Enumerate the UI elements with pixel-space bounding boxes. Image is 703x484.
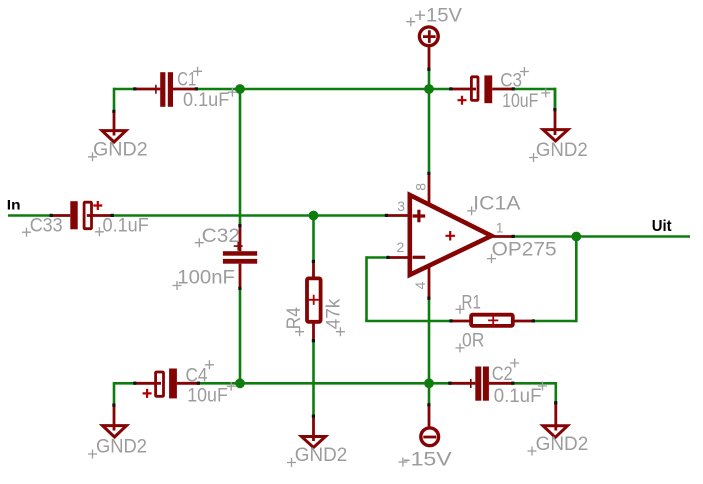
op-amp IC1A bbox=[387, 174, 514, 299]
GND2 bottom-left origin cross bbox=[88, 450, 97, 459]
svg-text:R4: R4 bbox=[284, 307, 305, 330]
svg-text:C1: C1 bbox=[177, 69, 196, 90]
wire feedback riser (output to R1) bbox=[575, 237, 578, 323]
ground GND2 top-right bbox=[543, 110, 568, 141]
junction dot input rail / R4 bbox=[309, 211, 319, 221]
svg-text:10uF: 10uF bbox=[187, 386, 228, 407]
wire op-amp pin 2 stub bbox=[367, 256, 389, 259]
svg-text:-15V: -15V bbox=[403, 450, 452, 471]
GND2 top-right origin cross bbox=[529, 153, 538, 162]
R4 text origin crosses bbox=[295, 327, 345, 336]
wire input left (In to C33) bbox=[8, 214, 51, 217]
svg-text:+15V: +15V bbox=[414, 6, 462, 27]
resistor R1 bbox=[451, 315, 534, 326]
wire +15V to top rail junction bbox=[428, 70, 431, 90]
capacitor C3 (polarized) bbox=[451, 75, 513, 104]
wire op-amp pin 8 riser bbox=[428, 89, 431, 174]
C2 text origin crosses bbox=[510, 359, 547, 391]
svg-text:Uit: Uit bbox=[652, 218, 672, 235]
svg-text:100nF: 100nF bbox=[177, 268, 235, 289]
wire op-amp pin 4 drop bbox=[428, 298, 431, 405]
svg-text:C3: C3 bbox=[500, 70, 522, 91]
ground GND2 bottom-center bbox=[302, 416, 326, 447]
svg-text:R1: R1 bbox=[462, 292, 481, 313]
wire bottom rail right with corner down to GND2 bbox=[513, 383, 556, 403]
capacitor C4 (polarized) bbox=[135, 369, 199, 399]
+15V supply symbol bbox=[419, 27, 438, 70]
C32 text origin crosses bbox=[173, 238, 204, 290]
junction dot top rail / C32 bbox=[235, 84, 245, 94]
wire C32 branch upper (top rail to C32) bbox=[239, 89, 242, 226]
GND2 bottom-right origin cross bbox=[528, 447, 537, 456]
svg-text:OP275: OP275 bbox=[492, 240, 557, 261]
svg-text:10uF: 10uF bbox=[502, 91, 538, 112]
svg-text:0R: 0R bbox=[462, 330, 484, 351]
IC1A text origin crosses bbox=[467, 206, 496, 263]
capacitor C33 (polarized, input) bbox=[51, 201, 112, 229]
wire top rail left (GND2 corner to C1) bbox=[114, 88, 135, 91]
svg-text:0.1uF: 0.1uF bbox=[183, 90, 229, 111]
wire R4 branch lower to GND2 bbox=[312, 341, 315, 416]
svg-text:3: 3 bbox=[397, 198, 405, 214]
junction dot bottom rail / pin 4 / -15V bbox=[424, 378, 434, 388]
-15V supply symbol bbox=[421, 405, 439, 446]
wire C32 branch lower (C32 to bottom rail) bbox=[239, 289, 242, 384]
junction dot top rail / +15V / pin 8 bbox=[424, 84, 434, 94]
pin connection ticks (black) bbox=[50, 68, 558, 418]
ground GND2 bottom-right bbox=[543, 403, 568, 437]
svg-text:C2: C2 bbox=[492, 364, 513, 385]
C3 text origin crosses bbox=[520, 67, 550, 97]
wire R4 branch upper bbox=[312, 216, 315, 262]
svg-text:2: 2 bbox=[397, 239, 405, 255]
svg-text:GND2: GND2 bbox=[93, 140, 148, 161]
svg-text:4: 4 bbox=[412, 282, 428, 290]
svg-text:C33: C33 bbox=[30, 215, 63, 236]
svg-text:GND2: GND2 bbox=[295, 445, 347, 466]
C1 text origin crosses bbox=[193, 67, 237, 97]
GND2 top-left origin cross bbox=[88, 152, 97, 161]
resistor R4 bbox=[307, 262, 321, 341]
ground GND2 top-left bbox=[102, 112, 126, 143]
wire feedback bottom horizontal bbox=[365, 320, 451, 323]
+15V origin cross bbox=[406, 17, 415, 26]
R1 text origin crosses bbox=[456, 305, 465, 353]
svg-text:0.1uF: 0.1uF bbox=[494, 386, 542, 407]
wire input middle (C33 to op-amp pin 3) bbox=[113, 214, 387, 217]
C4 text origin crosses bbox=[205, 360, 236, 390]
svg-text:47k: 47k bbox=[324, 298, 345, 329]
wire output (pin 1 to Uit) bbox=[513, 235, 690, 238]
svg-text:8: 8 bbox=[413, 183, 429, 191]
svg-text:GND2: GND2 bbox=[536, 140, 588, 161]
wire feedback left vertical bbox=[365, 256, 368, 321]
svg-text:In: In bbox=[7, 198, 21, 213]
capacitor C2 bbox=[450, 367, 513, 401]
svg-text:1: 1 bbox=[496, 220, 504, 236]
svg-text:C4: C4 bbox=[186, 365, 208, 386]
wire bottom rail left corner to C4 and GND2 bbox=[114, 383, 135, 405]
svg-text:GND2: GND2 bbox=[536, 434, 589, 455]
svg-text:GND2: GND2 bbox=[96, 437, 147, 458]
wire top rail middle (C1 to C3) bbox=[197, 88, 452, 91]
svg-text:C32: C32 bbox=[202, 226, 240, 247]
C33 text origin crosses bbox=[22, 227, 104, 236]
junction dot output / feedback bbox=[571, 232, 581, 242]
junction dot bottom rail / C32 bbox=[235, 378, 245, 388]
svg-text:0.1uF: 0.1uF bbox=[103, 215, 149, 236]
wire R1 to feedback riser bbox=[534, 320, 577, 323]
wire top rail right with corner down to GND2 bbox=[513, 88, 555, 110]
ground GND2 bottom-left bbox=[103, 405, 127, 437]
capacitor C32 bbox=[223, 226, 257, 289]
-15V origin cross bbox=[398, 458, 407, 467]
capacitor C1 bbox=[135, 72, 197, 107]
wire bottom rail middle (C4 to C2) bbox=[199, 382, 451, 385]
svg-text:IC1A: IC1A bbox=[473, 193, 521, 214]
GND2 bottom-center origin cross bbox=[287, 458, 296, 467]
wire top-left GND2 drop bbox=[113, 88, 116, 112]
